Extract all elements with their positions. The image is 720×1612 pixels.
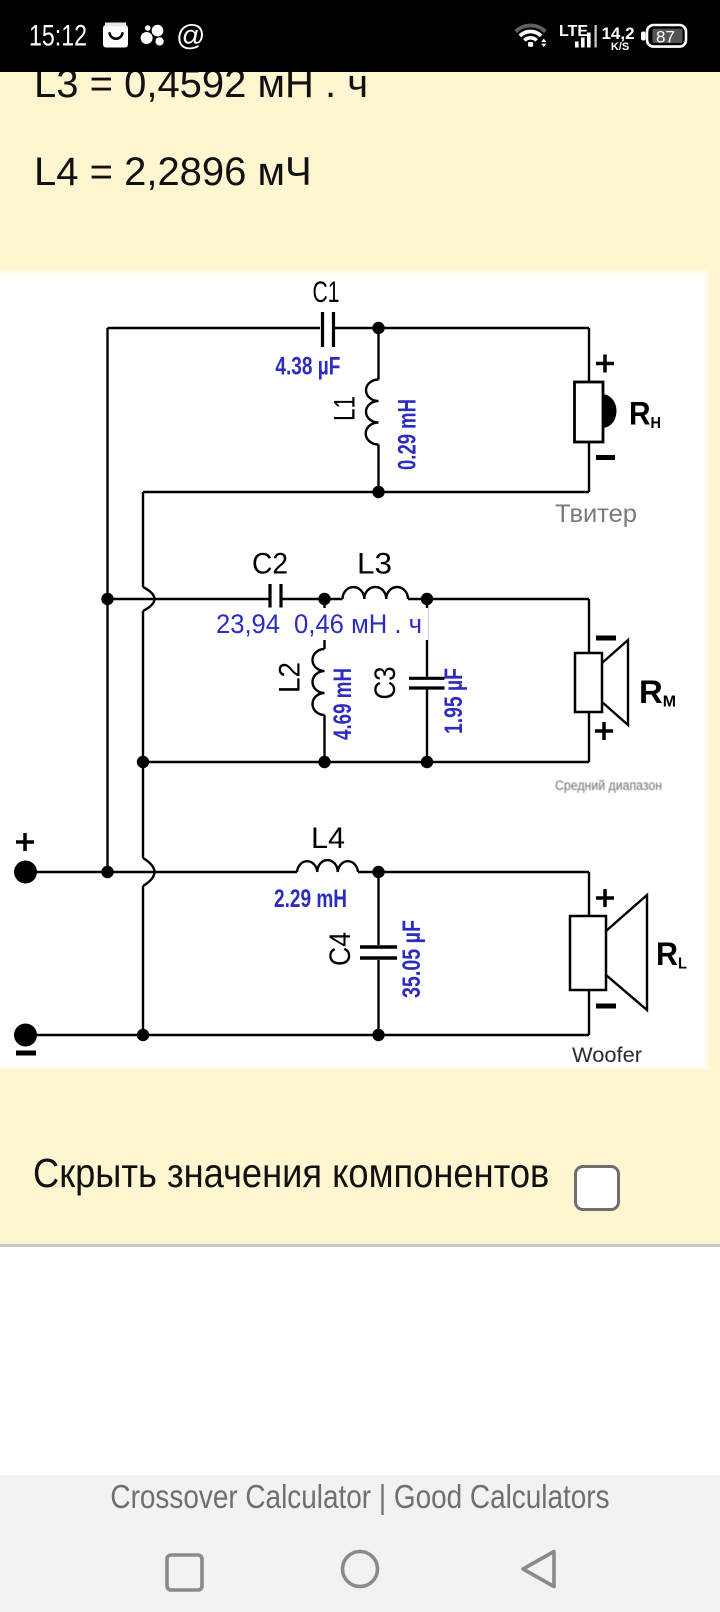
svg-text:L2: L2: [274, 662, 307, 693]
svg-text:4.69 mH: 4.69 mH: [329, 668, 357, 740]
svg-text:C1: C1: [313, 276, 340, 309]
svg-text:C4: C4: [324, 932, 357, 966]
svg-text:15:12: 15:12: [29, 20, 87, 53]
svg-text:Средний диапазон: Средний диапазон: [555, 778, 662, 793]
svg-text:K/S: K/S: [611, 41, 629, 53]
svg-text:4.38 µF: 4.38 µF: [275, 352, 340, 380]
svg-text:RH: RH: [629, 396, 661, 432]
svg-text:Твитер: Твитер: [555, 500, 637, 528]
svg-text:0.29 mH: 0.29 mH: [394, 399, 422, 470]
svg-text:C2: C2: [252, 548, 288, 581]
svg-text:Woofer: Woofer: [572, 1044, 642, 1067]
svg-text:35.05 µF: 35.05 µF: [398, 920, 426, 998]
svg-text:L4: L4: [311, 822, 345, 855]
svg-text:@: @: [176, 20, 205, 52]
svg-text:2.29 mH: 2.29 mH: [274, 885, 347, 913]
svg-text:1.95 µF: 1.95 µF: [440, 668, 468, 734]
svg-text:C3: C3: [369, 667, 402, 700]
svg-text:23,94: 23,94: [216, 609, 280, 639]
svg-text:87: 87: [656, 28, 675, 47]
svg-text:0,46 мН . ч: 0,46 мН . ч: [294, 609, 422, 639]
svg-text:LTE: LTE: [559, 23, 588, 40]
svg-text:L3: L3: [357, 548, 392, 581]
svg-text:L1: L1: [329, 396, 362, 421]
svg-text:RL: RL: [656, 936, 687, 972]
svg-text:RM: RM: [639, 674, 676, 710]
